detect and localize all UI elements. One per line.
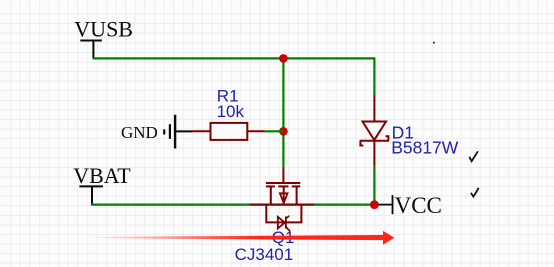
- wire Q1 drain to VCC node: [314, 204, 374, 206]
- speck: [433, 42, 435, 44]
- resistor R1: [193, 123, 265, 140]
- wire VBAT to Q1 source: [91, 204, 250, 206]
- svg-text:B5817W: B5817W: [391, 137, 459, 157]
- svg-text:CJ3401: CJ3401: [235, 245, 294, 264]
- wire vertical VUSB to gate: [282, 58, 284, 167]
- transistor Q1: [250, 168, 314, 232]
- svg-text:10k: 10k: [217, 102, 245, 121]
- wire D1 to VCC node: [373, 166, 375, 205]
- junction top: [279, 54, 288, 63]
- ground GND: [121, 115, 193, 149]
- port VUSB: [74, 17, 133, 59]
- port VBAT: [73, 163, 131, 205]
- check mark 1: [469, 151, 478, 161]
- wire R1 to junction: [265, 130, 284, 132]
- diode D1: [360, 96, 389, 166]
- port VCC: [379, 193, 442, 218]
- svg-text:VUSB: VUSB: [74, 17, 133, 42]
- junction R1: [279, 127, 288, 136]
- check mark 2: [471, 188, 479, 197]
- junction VCC: [370, 200, 379, 209]
- annotation red arrow: [87, 231, 394, 245]
- svg-text:VBAT: VBAT: [73, 163, 131, 188]
- svg-text:GND: GND: [121, 123, 158, 142]
- wire top right vertical to D1: [373, 57, 375, 95]
- wire VUSB horizontal: [93, 57, 375, 59]
- svg-text:VCC: VCC: [395, 193, 442, 218]
